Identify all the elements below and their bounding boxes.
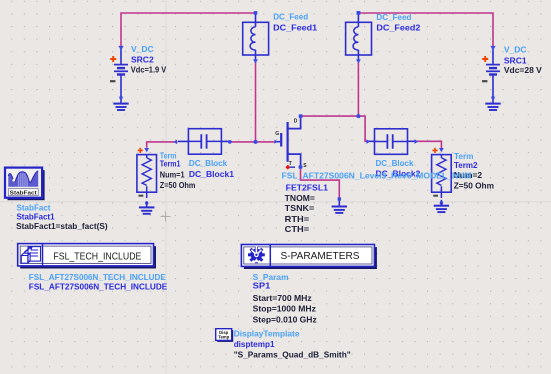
svg-text:FET2FSL1: FET2FSL1: [286, 183, 328, 193]
svg-text:Vdc=1.9 V: Vdc=1.9 V: [131, 64, 167, 74]
svg-text:Z=50 Ohm: Z=50 Ohm: [454, 181, 495, 191]
svg-text:disptemp1: disptemp1: [234, 339, 275, 349]
svg-text:Temp: Temp: [218, 335, 229, 340]
svg-text:G: G: [275, 131, 279, 137]
svg-text:FSL_TECH_INCLUDE: FSL_TECH_INCLUDE: [53, 251, 141, 262]
svg-text:V_DC: V_DC: [504, 45, 527, 55]
svg-text:StabFact1: StabFact1: [17, 211, 55, 221]
svg-text:StabFact1=stab_fact(S): StabFact1=stab_fact(S): [16, 221, 108, 231]
svg-text:DisplayTemplate: DisplayTemplate: [234, 329, 300, 339]
svg-text:FSL_AFT27S006N_Level3_Rev6_MOD: FSL_AFT27S006N_Level3_Rev6_MODEL_NUM: [282, 170, 472, 180]
svg-text:S-PARAMETERS: S-PARAMETERS: [281, 251, 360, 262]
svg-text:V_DC: V_DC: [131, 44, 154, 54]
svg-text:DC_Feed2: DC_Feed2: [376, 23, 420, 33]
svg-text:Num=1: Num=1: [160, 169, 185, 179]
svg-text:Z=50 Ohm: Z=50 Ohm: [160, 180, 196, 190]
svg-text:RTH=: RTH=: [285, 214, 310, 224]
svg-text:Term1: Term1: [160, 158, 181, 168]
svg-text:T: T: [289, 161, 292, 167]
svg-text:FSL_AFT27S006N_TECH_INCLUDE: FSL_AFT27S006N_TECH_INCLUDE: [29, 272, 166, 282]
svg-text:SRC1: SRC1: [504, 55, 527, 65]
svg-text:Term2: Term2: [454, 160, 478, 170]
svg-text:StabFact: StabFact: [10, 191, 37, 197]
svg-text:DC_Block: DC_Block: [189, 158, 228, 168]
svg-text:DC_Block1: DC_Block1: [189, 169, 234, 179]
svg-text:FSL_AFT27S006N_TECH_INCLUDE: FSL_AFT27S006N_TECH_INCLUDE: [29, 282, 168, 292]
svg-text:SRC2: SRC2: [131, 55, 154, 65]
svg-text:DC_Feed: DC_Feed: [376, 12, 411, 22]
svg-text:DC_Feed1: DC_Feed1: [273, 23, 317, 33]
svg-text:CTH=: CTH=: [285, 224, 310, 234]
svg-text:SP1: SP1: [253, 280, 271, 290]
svg-text:DC_Feed: DC_Feed: [273, 12, 308, 22]
svg-text:"S_Params_Quad_dB_Smith": "S_Params_Quad_dB_Smith": [234, 350, 351, 360]
svg-text:D: D: [294, 119, 298, 125]
svg-text:Step=0.010 GHz: Step=0.010 GHz: [253, 314, 317, 324]
svg-text:TNOM=: TNOM=: [285, 193, 315, 203]
svg-text:Start=700 MHz: Start=700 MHz: [253, 293, 312, 303]
svg-text:DC_Block: DC_Block: [376, 158, 414, 168]
svg-text:TSNK=: TSNK=: [285, 203, 315, 213]
svg-text:Stop=1000 MHz: Stop=1000 MHz: [253, 304, 316, 314]
svg-text:Vdc=28 V: Vdc=28 V: [504, 65, 542, 75]
